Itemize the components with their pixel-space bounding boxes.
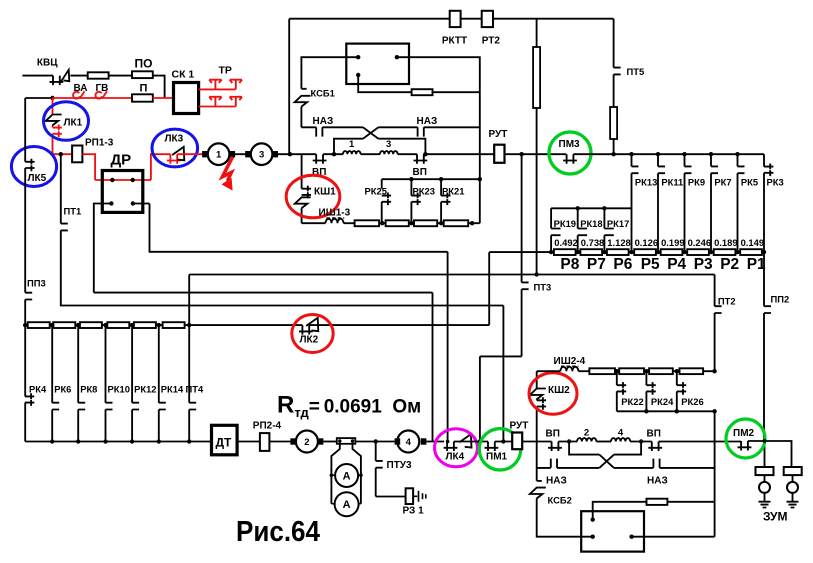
wire КШ2 down across ПМ1 wire: [536, 407, 538, 481]
node link b: [351, 439, 354, 442]
wire red РП1-3 to ДР: [82, 154, 95, 180]
wire box c to damping resistor: [358, 75, 411, 92]
contactor КШ2 flash: [530, 389, 546, 400]
node reverser a: [591, 517, 595, 521]
coil 2 of motor field: [577, 438, 596, 441]
contact РК26: [676, 371, 678, 385]
svg-text:Р5: Р5: [641, 256, 660, 273]
node РК13 top: [629, 152, 633, 156]
contactor ЛК1 flash: [46, 115, 62, 126]
svg-text:ВА: ВА: [74, 83, 88, 94]
node ИШ2 a: [615, 369, 619, 373]
box capacitor unit top: [346, 44, 409, 84]
disconnector ВА: [73, 92, 80, 99]
node row joint: [762, 250, 766, 254]
svg-text:Р6: Р6: [613, 256, 632, 273]
node ИШ2 b: [644, 369, 648, 373]
wire row feed Р8-Р1: [489, 251, 764, 253]
wire ИШ2-4 rail: [537, 370, 561, 372]
contact РК10: [106, 403, 113, 410]
node ИШ2 c: [675, 369, 679, 373]
svg-text:ИШ2-4: ИШ2-4: [554, 356, 586, 367]
wire giant vertical: [536, 19, 538, 275]
resistor Р1: [740, 249, 762, 255]
svg-text:КШ1: КШ1: [314, 187, 336, 198]
svg-text:РП1-3: РП1-3: [85, 138, 114, 149]
node reverser b: [591, 535, 595, 539]
wire L6: [480, 356, 522, 441]
svg-text:ПМ2: ПМ2: [733, 428, 755, 439]
motor 4 terminal left: [395, 438, 401, 444]
wire row to Р8 feed riser: [488, 252, 490, 325]
wire reverser c to ПТ2 line: [632, 536, 715, 538]
svg-text:РК10: РК10: [108, 384, 130, 395]
svg-text:РК19: РК19: [554, 218, 576, 229]
node box c: [356, 73, 360, 77]
node bank: [187, 323, 191, 327]
breaker contact КВЦ: [50, 76, 64, 86]
contact РК11 branch: [657, 154, 659, 166]
resistor Р5: [634, 249, 656, 255]
wire red ВА-ГВ line: [53, 97, 133, 99]
wire resistor to vertical: [433, 91, 480, 93]
wire red up to ЛК3: [151, 154, 171, 180]
svg-text:РК12: РК12: [134, 384, 156, 395]
svg-text:ИШ1-3: ИШ1-3: [319, 208, 351, 219]
contactor ЛК3 contact: [167, 154, 181, 164]
svg-text:1: 1: [216, 150, 222, 161]
svg-text:РК23: РК23: [413, 186, 435, 197]
contact РК23 branch: [410, 179, 412, 195]
circle ЛК4: [435, 429, 478, 467]
node row joint: [709, 250, 713, 254]
resistor tall top (КСБ feed): [533, 47, 540, 108]
contact ПП3: [25, 293, 32, 300]
node РК18 rail: [576, 206, 580, 210]
wire L2 corner to row: [188, 275, 190, 326]
contactor КШ1 branch wire: [301, 154, 303, 189]
wire top horizontal: [289, 18, 613, 20]
node РК11 top: [656, 152, 660, 156]
wire box b to right vertical: [397, 57, 480, 92]
svg-text:ПТ3: ПТ3: [534, 282, 552, 293]
svg-text:3: 3: [386, 139, 391, 150]
svg-text:ПТ4: ПТ4: [186, 384, 204, 395]
svg-text:Рис.64: Рис.64: [236, 516, 320, 548]
svg-text:ДТ: ДТ: [216, 436, 233, 450]
contactor ЛК2 contact: [299, 325, 313, 335]
node bank: [76, 323, 80, 327]
transformer bracket right: [378, 139, 425, 155]
antenna ТР 2a: [209, 97, 221, 107]
wire coil4 to ВП right: [630, 441, 652, 443]
svg-text:0.126: 0.126: [635, 237, 658, 248]
node РК23 bottom: [409, 221, 413, 225]
node box a: [356, 55, 360, 59]
wire НАЗ rail: [301, 126, 479, 128]
node ДР d: [131, 201, 135, 205]
wire ПП2 branch: [763, 252, 765, 441]
node loop a: [330, 473, 334, 477]
wire coil3 to ВП right: [398, 153, 417, 155]
svg-text:РП2-4: РП2-4: [253, 421, 282, 432]
wire left vertical КВЦ to ПП3: [24, 98, 26, 293]
wire ЛК4 to ПМ1: [454, 441, 488, 443]
contact РК3: [764, 164, 773, 177]
svg-text:П: П: [140, 83, 148, 95]
box СК 1: [174, 83, 199, 114]
svg-text:Р3: Р3: [694, 256, 713, 273]
wire ВП to ПМ2: [659, 441, 742, 443]
svg-text:РК8: РК8: [80, 384, 97, 395]
svg-text:РУТ: РУТ: [510, 421, 529, 432]
contact РК17: [604, 208, 613, 252]
svg-text:ГВ: ГВ: [96, 83, 109, 94]
relay РТ2: [482, 11, 493, 27]
wire red П to СК1: [153, 97, 174, 99]
coil 3 of motor field: [380, 151, 398, 154]
node РК21 bottom: [439, 221, 443, 225]
wire ammeter link to motor 4: [355, 441, 394, 443]
svg-text:РК26: РК26: [681, 396, 703, 407]
wire ПТ2 vertical lower: [714, 411, 716, 536]
contact РК5 branch: [737, 154, 739, 166]
node top wire branch: [288, 152, 292, 156]
resistor Р6: [607, 249, 629, 255]
svg-text:КВЦ: КВЦ: [37, 58, 58, 69]
inductor ИШ1-3: [326, 219, 344, 223]
svg-text:0.149: 0.149: [741, 237, 764, 248]
node bottom rail: [103, 439, 107, 443]
contactor КСБ2 flash: [530, 488, 546, 499]
svg-text:НАЗ: НАЗ: [546, 476, 567, 487]
ground left: [759, 502, 771, 508]
resistor ИШ2 r4: [680, 368, 704, 374]
resistor ИШ r1: [355, 220, 380, 226]
contact РК8: [78, 403, 85, 410]
dashed underline ИШ1-3: [327, 217, 345, 219]
svg-text:РК17: РК17: [607, 218, 629, 229]
resistor (unnamed, КВЦ line): [88, 72, 109, 78]
wire to ground left: [764, 493, 766, 502]
contact ПМ1: [485, 442, 499, 452]
svg-text:ЗУМ: ЗУМ: [763, 510, 788, 524]
wire КШ2 line from ИШ2-4 rail: [536, 371, 538, 388]
transformer crossover: [363, 127, 379, 138]
svg-text:РТ2: РТ2: [482, 36, 501, 47]
wire resistor to bus: [613, 139, 615, 154]
wire ПТ2 branch down: [714, 275, 716, 307]
contact РК9 branch: [684, 154, 686, 166]
contact РК4: [25, 393, 34, 406]
node bracket bottom left: [567, 439, 571, 443]
relay РКТТ: [450, 11, 461, 27]
contact РК14: [159, 403, 166, 410]
svg-text:РКТТ: РКТТ: [442, 36, 467, 47]
relay РУТ box top: [494, 145, 504, 163]
wire ПТ3 branch: [521, 154, 523, 356]
wire ЗУМ left: [764, 475, 766, 482]
antenna ТР 1a: [209, 80, 221, 90]
wire КСБ1 to НАЗ rail: [300, 107, 302, 128]
contact ВП left: [313, 154, 327, 164]
svg-text:ПО: ПО: [135, 57, 153, 71]
wire red ЛК3 to motor 1: [177, 153, 202, 155]
contact ПМ3: [563, 154, 577, 164]
node РК7 top: [709, 152, 713, 156]
wire reverser to resistor: [593, 502, 647, 520]
motor 3: [251, 143, 273, 165]
node rail end: [712, 409, 716, 413]
node bracket right: [423, 152, 427, 156]
svg-text:РК21: РК21: [442, 186, 464, 197]
node РК9 top: [682, 152, 686, 156]
contact ВП bottom right: [648, 442, 662, 452]
circle КШ1: [286, 175, 340, 218]
contact ПТ2: [715, 306, 722, 313]
node bracket bottom right: [639, 439, 643, 443]
svg-text:РК3: РК3: [767, 177, 784, 188]
svg-text:ПТУ3: ПТУ3: [387, 460, 413, 471]
ground right: [787, 502, 799, 508]
svg-text:НАЗ: НАЗ: [647, 476, 668, 487]
node rail РК23: [409, 177, 413, 181]
node bottom rail: [76, 439, 80, 443]
svg-text:РК22: РК22: [621, 396, 643, 407]
resistor damping top: [412, 89, 433, 95]
svg-text:ПП3: ПП3: [27, 278, 46, 289]
wire ПТ1 to line L4: [61, 230, 504, 305]
svg-text:ПМ1: ПМ1: [486, 452, 508, 463]
svg-text:РК25: РК25: [365, 186, 387, 197]
relay РУТ box bottom: [512, 433, 522, 450]
resistor bottom damping: [647, 499, 668, 505]
circle КШ2: [529, 373, 577, 414]
svg-text:ДР: ДР: [111, 152, 132, 169]
wire bank branch РК10: [105, 325, 107, 441]
transformer bracket left: [334, 139, 363, 155]
wire: [344, 222, 355, 224]
wire red ТР row 1: [199, 88, 236, 90]
wire L2 ПТ2 feed line: [189, 274, 714, 276]
contact РК19: [551, 208, 560, 252]
wire box to КСБ1: [301, 57, 358, 89]
motor 1 terminal left: [202, 151, 208, 157]
ЗУМ lamp right: [787, 482, 798, 493]
node РК5 top: [735, 152, 739, 156]
svg-text:1.128: 1.128: [607, 237, 630, 248]
svg-text:РЗ 1: РЗ 1: [403, 506, 425, 517]
resistor bank cell: [107, 322, 129, 328]
coil 1 of motor field: [343, 151, 361, 154]
inductor ИШ2-4: [560, 367, 578, 371]
contact РК13 branch: [631, 154, 633, 166]
resistor ИШ r4: [444, 220, 469, 226]
node ПТУ3 branch: [374, 439, 378, 443]
node L4 joint: [501, 439, 505, 443]
wire bus corner to РК3: [763, 154, 765, 166]
wire between coils: [361, 153, 380, 155]
resistor bank cell: [134, 322, 156, 328]
node row joint: [576, 250, 580, 254]
node row joint: [682, 250, 686, 254]
contact РК18: [578, 208, 587, 252]
wire РК25-21 rail: [382, 178, 480, 180]
resistor Р4: [661, 249, 683, 255]
node row joint: [629, 250, 633, 254]
node bottom rail: [130, 439, 134, 443]
node bracket left: [332, 152, 336, 156]
wire ПТ4 branch: [188, 325, 190, 441]
svg-text:КСБ1: КСБ1: [311, 88, 335, 99]
node giant vertical end: [534, 272, 538, 276]
svg-text:РК24: РК24: [651, 396, 674, 407]
wire between coils 2-4: [596, 441, 611, 443]
relay РП2-4: [260, 433, 270, 451]
wire ПТ2 to ИШ2 rail: [714, 313, 716, 371]
wire РК4 branch: [24, 325, 26, 441]
wire КВЦ supply line: [22, 75, 53, 77]
node bank: [50, 323, 54, 327]
wire ПП3 to resistor row: [24, 300, 26, 326]
wire ИШ rail start: [302, 222, 326, 224]
box reverser bottom: [581, 511, 644, 551]
resistor Р8: [554, 249, 576, 255]
wire to СК1: [153, 76, 165, 98]
node row joint: [735, 250, 739, 254]
wire resistor bank row: [25, 324, 489, 326]
resistor ИШ2 r1: [589, 368, 615, 374]
svg-text:0.189: 0.189: [714, 237, 737, 248]
contact РК25 branch: [381, 179, 383, 189]
wire bank branch РК6: [51, 325, 53, 441]
wire bank branch РК14: [158, 325, 160, 441]
contact ПМ2: [738, 441, 752, 451]
circle ПМ1: [479, 429, 520, 470]
svg-text:0.492: 0.492: [554, 237, 577, 248]
resistor ИШ r3: [414, 220, 437, 226]
contact ПТ4: [189, 403, 196, 410]
wire bank branch РК12: [131, 325, 133, 441]
svg-text:4: 4: [618, 428, 624, 439]
relay box РП1-3: [72, 146, 82, 163]
contactor КШ1 contact: [302, 186, 311, 199]
wire right vertical down: [479, 92, 481, 223]
lightning fault arrow: [222, 157, 232, 181]
node bank: [103, 323, 107, 327]
svg-text:ВП: ВП: [546, 429, 560, 440]
circle ЛК5: [11, 147, 56, 187]
svg-text:СК 1: СК 1: [172, 69, 195, 81]
svg-text:Р7: Р7: [587, 256, 606, 273]
contact ПП2: [764, 306, 771, 313]
wire L1a ДР to ЛК4: [150, 204, 448, 442]
contactor ЛК1 contact: [52, 126, 54, 128]
resistor П: [132, 94, 153, 101]
contactor КСБ2 hook: [537, 480, 542, 482]
svg-text:А: А: [343, 499, 351, 511]
svg-text:ЛК3: ЛК3: [165, 134, 184, 145]
circle ЛК3: [152, 129, 198, 167]
resistor ИШ2 r2: [619, 368, 644, 374]
wire ПТ5 vertical: [613, 19, 615, 107]
node row P8 left: [549, 250, 553, 254]
wire: [70, 75, 87, 77]
wire link to ammeter loop: [331, 441, 361, 504]
node loop b: [359, 473, 363, 477]
node L6 joint: [478, 439, 482, 443]
svg-text:ЛК1: ЛК1: [64, 118, 83, 129]
wire КШ1 to ИШ rail: [301, 208, 303, 223]
contact НАЗ left: [316, 127, 322, 136]
node reverser c: [629, 535, 633, 539]
motor 1 terminal right: [230, 151, 236, 157]
svg-text:НАЗ: НАЗ: [417, 116, 438, 127]
contact НАЗ bottom right: [653, 459, 659, 468]
motor 3 terminal left: [245, 151, 251, 157]
wire red to РП1-3: [53, 153, 73, 155]
motor 4: [397, 431, 419, 453]
svg-text:А: А: [343, 470, 351, 482]
resistor bank cell: [53, 322, 75, 328]
wire ИШ2 joints: [615, 370, 715, 372]
node rail c: [675, 409, 679, 413]
node bank: [130, 323, 134, 327]
svg-text:ПМ3: ПМ3: [559, 139, 581, 150]
wire motor1 to motor3: [235, 153, 249, 155]
svg-text:РУТ: РУТ: [489, 129, 508, 140]
svg-text:НАЗ: НАЗ: [313, 116, 334, 127]
node bank: [157, 323, 161, 327]
wire РУТ to ВП: [522, 441, 551, 443]
wire: [109, 75, 132, 77]
motor 2 terminal left: [290, 438, 296, 444]
wire ПП2 to ЗУМ: [764, 441, 766, 467]
ЗУМ lamp left: [759, 482, 770, 493]
transformer crossover bottom: [599, 455, 614, 468]
transformer bracket bottom left: [569, 442, 599, 455]
wire РУТ to ПМ3: [505, 153, 567, 155]
wire ПМ2 to corner: [748, 441, 792, 467]
node bottom rail: [157, 439, 161, 443]
svg-text:0.738: 0.738: [581, 237, 604, 248]
node ИШ2 rail end: [712, 369, 716, 373]
contactor ЛК2 flash: [306, 318, 318, 331]
node rail b: [644, 409, 648, 413]
resistor Р3: [687, 249, 709, 255]
resistor ПТ5 branch: [610, 107, 617, 139]
wire РК3 to row: [763, 173, 765, 252]
contact ВП bottom left: [548, 442, 562, 452]
svg-text:РК18: РК18: [580, 218, 602, 229]
node rail right: [478, 177, 482, 181]
node box b: [395, 55, 399, 59]
svg-text:РК5: РК5: [741, 177, 758, 188]
wire ДТ to РП2-4: [237, 441, 260, 443]
contact РК12: [132, 403, 139, 410]
wire L3 ДР to ЛК4 wire: [94, 204, 433, 442]
svg-text:2: 2: [584, 428, 589, 439]
node ЗУМ branch: [763, 439, 767, 443]
contact ПТУ3: [376, 461, 383, 468]
svg-text:ТР: ТР: [219, 65, 232, 77]
box ДТ: [212, 425, 238, 455]
wire РК19 rail: [551, 207, 631, 209]
node ДР b: [131, 178, 135, 182]
svg-text:Р8: Р8: [560, 256, 579, 273]
svg-text:0.246: 0.246: [688, 237, 711, 248]
motor 4 terminal right: [421, 438, 427, 444]
